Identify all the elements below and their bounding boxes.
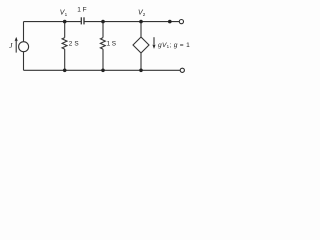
wire top left segment	[24, 21, 81, 23]
arrowhead dependent source down	[152, 45, 155, 49]
node V2 dot	[139, 20, 143, 24]
terminal top-right open circle	[179, 20, 183, 24]
terminal bottom-right open circle	[180, 68, 184, 72]
svg-text:1: 1	[65, 12, 68, 17]
wire 2S branch upper	[64, 22, 66, 38]
bottom node dot 3	[139, 69, 143, 73]
arrowhead J up	[15, 37, 18, 41]
resistor 1S zigzag	[100, 38, 105, 50]
wire 1S branch upper	[102, 22, 104, 38]
wire 1S branch lower	[102, 49, 104, 70]
wire V2 branch upper	[140, 22, 142, 37]
svg-text:1 S: 1 S	[107, 41, 116, 48]
bottom node dot 1	[63, 69, 67, 73]
wire top right segment	[84, 21, 179, 23]
dependent source diamond	[133, 37, 149, 53]
node V1 dot	[63, 20, 67, 24]
node after capacitor dot	[101, 20, 105, 24]
arrow J (current direction, up)	[15, 39, 17, 53]
wire 2S branch lower	[64, 49, 66, 70]
svg-text:gV1; g = 1: gV1; g = 1	[158, 42, 190, 49]
svg-text:1F: 1F	[77, 6, 86, 13]
svg-text:2 S: 2 S	[69, 41, 79, 48]
capacitor 1F plates	[80, 17, 82, 24]
wire left branch upper	[23, 22, 25, 42]
bottom node dot 2	[101, 69, 105, 73]
wire V2 branch lower	[140, 53, 142, 70]
resistor 2S zigzag	[62, 38, 67, 50]
current source J circle	[19, 42, 29, 52]
node top-right dot	[168, 20, 172, 24]
arrow dependent source (down)	[153, 37, 155, 47]
wire left branch lower	[23, 52, 25, 71]
svg-text:2: 2	[143, 12, 146, 17]
wire bottom	[24, 69, 181, 71]
